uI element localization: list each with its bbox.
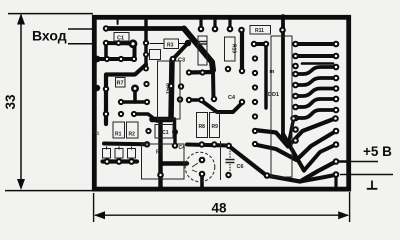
wire ground bus arm: [161, 161, 188, 165]
wire vertical stub x106: [104, 43, 108, 59]
transistor VT1 outline: [185, 152, 215, 182]
pad input 2: [103, 40, 109, 46]
pad left edge 2: [94, 85, 100, 91]
pad MC1: [172, 129, 178, 135]
wire vertical trace x242: [240, 30, 244, 71]
wire connector row 2: [296, 54, 337, 58]
svg-text:C4: C4: [179, 145, 186, 151]
pad row3 b: [118, 56, 124, 62]
pad connector R3: [333, 64, 340, 71]
pad column x255 pin3: [252, 84, 258, 90]
pad chevron left end: [252, 141, 258, 147]
pad left of center pair: [177, 96, 183, 102]
dimension 33 extension line top: [8, 13, 93, 15]
dimension 33 arrow up: [17, 13, 25, 24]
wire chevron trace 3b: [304, 145, 336, 171]
pad connector R2: [333, 53, 340, 60]
pad pair b: [263, 41, 269, 47]
svg-text:C1: C1: [117, 36, 124, 42]
wire bar at node: [189, 70, 213, 75]
dimension 33 arrow down: [17, 179, 25, 190]
pad bottom row 2: [172, 142, 178, 148]
pad three row b: [116, 158, 123, 165]
wire trace bottom row center: [187, 145, 228, 146]
wire vertical trace x146: [144, 18, 147, 69]
capacitor C5 outline: [198, 36, 207, 65]
pad C6 bottom: [225, 172, 231, 178]
diode MC1 outline: [155, 125, 173, 139]
pad connector R10: [333, 141, 340, 148]
input wire 1: [68, 28, 95, 30]
pad connector L10: [292, 137, 299, 144]
pad three row a: [104, 158, 111, 165]
board outline: [94, 17, 348, 189]
wire ground pad stem: [334, 176, 337, 189]
pad DA1 on trace: [168, 83, 175, 90]
svg-text:DA1: DA1: [165, 83, 171, 94]
pad connector L7: [292, 104, 299, 111]
pad stem x230: [227, 26, 234, 33]
svg-text:C3: C3: [178, 58, 185, 64]
wire trace pads pair: [254, 42, 266, 46]
pad +5V: [333, 158, 340, 165]
pad row3 a: [104, 56, 110, 62]
svg-text:R1: R1: [94, 131, 100, 136]
pad connector R4: [333, 75, 340, 82]
capacitor C1 outline: [114, 33, 129, 42]
pad column x255 pin1: [252, 55, 258, 61]
wire thin trace between rows: [302, 62, 333, 65]
IC DD1 outline: [271, 36, 292, 177]
wire connector S trace 4: [296, 99, 337, 107]
capacitor C5 plates: [198, 42, 208, 45]
pad column x255 pin4: [252, 99, 258, 105]
wire chevron trace 5 to ground: [300, 175, 335, 182]
wire R3 lead left: [150, 43, 164, 45]
pad R8 top: [198, 97, 204, 103]
ground wire: [340, 174, 393, 176]
pad bottom row 5: [226, 143, 232, 149]
dimension 48 extension line right: [349, 192, 351, 222]
svg-text:+5 В: +5 В: [363, 144, 392, 159]
wire C1 pad stub down: [133, 44, 137, 59]
capacitor C6 plates: [226, 160, 235, 163]
ground symbol: [367, 181, 378, 189]
svg-text:R4: R4: [156, 150, 163, 156]
pad R7 top: [131, 85, 139, 93]
pad R10 bottom: [225, 66, 231, 72]
svg-text:33: 33: [3, 94, 18, 110]
wire vertical trace x283: [281, 16, 285, 136]
resistor R9 outline: [210, 113, 220, 138]
wire connector S trace 1: [296, 67, 337, 74]
wire vertical to R9 pad: [211, 71, 216, 98]
wire trace row114: [134, 114, 157, 121]
pad bottom row 4: [211, 141, 217, 147]
pad right of DA1: [178, 83, 184, 89]
pad R7 right: [144, 99, 150, 105]
pad MC1 left: [145, 128, 151, 134]
pad pair a: [251, 41, 257, 47]
resistor R3 outline: [164, 39, 179, 49]
dimension 48 arrow left: [94, 211, 105, 219]
pad x242 bottom: [239, 68, 245, 74]
wire trace R7 horizontal: [121, 100, 147, 104]
dimension 48 extension line left: [93, 193, 95, 222]
wire L trace left: [106, 65, 146, 125]
pad bar b: [199, 69, 205, 75]
pad connector L5: [292, 82, 299, 89]
wire DA1 thick vertical trace: [152, 60, 172, 120]
wire chevron trace 3: [283, 134, 304, 171]
capacitor C6 leads: [229, 148, 231, 171]
pad connector L8: [292, 115, 299, 122]
wire trace three pad row: [103, 159, 138, 163]
pad row2 mid: [116, 40, 122, 46]
pad connector L1: [292, 41, 299, 48]
pad C4: [239, 99, 245, 105]
wire trace bottom row left: [104, 142, 147, 147]
pad x106 lower: [103, 111, 109, 117]
wire transistor emitter stem: [200, 174, 204, 189]
pad x145 top: [143, 40, 149, 46]
wire diagonal trace to center: [184, 29, 213, 71]
dimension 48 line: [95, 214, 348, 216]
svg-text:R7: R7: [117, 81, 124, 87]
pad column x255 pin6: [252, 128, 258, 134]
svg-text:m: m: [270, 69, 275, 75]
wire connector row 1: [296, 42, 337, 46]
svg-text:Вход: Вход: [32, 28, 67, 44]
pad connector R8: [332, 115, 339, 122]
pad connector R6: [333, 96, 340, 103]
wire +5V exit trace: [336, 160, 350, 162]
pad connector L3: [292, 63, 299, 70]
wire vertical trace x266: [264, 44, 267, 108]
svg-text:DD1: DD1: [268, 92, 279, 98]
resistor R4 outline: [103, 149, 111, 159]
wire chevron trace 2: [255, 131, 337, 160]
wire diagonal trace center: [202, 101, 242, 112]
capacitor C7 outline: [142, 144, 185, 179]
pad three row c: [128, 158, 135, 165]
wire stem pad to top edge x230: [228, 17, 231, 30]
wire chevron inner leg: [288, 119, 294, 146]
pad x145 bottom: [143, 66, 149, 72]
wire trace input top: [106, 26, 184, 31]
pad C3 bottom: [170, 56, 177, 63]
pad input 1: [103, 25, 109, 31]
wire stub C1: [117, 17, 119, 25]
pad transistor base: [199, 157, 206, 164]
resistor R11 outline: [250, 26, 271, 35]
dimension 33 extension line bottom: [5, 190, 92, 192]
pad chevron inner top: [290, 115, 296, 121]
wire MC1 pad stem: [173, 132, 176, 146]
wire DA1 lower trace: [173, 119, 177, 132]
pad center a: [186, 97, 192, 103]
svg-text:R9: R9: [212, 124, 219, 130]
pad bottom row 1: [144, 141, 150, 147]
pad connector L4: [292, 71, 299, 78]
wire ground bus vertical: [158, 121, 162, 188]
pad stem x201: [198, 26, 205, 33]
resistor R6 outline: [128, 149, 136, 159]
wire trace C3 diagonal: [173, 43, 188, 59]
wire trace center pair: [189, 98, 201, 102]
wire trace R7 vertical: [133, 89, 137, 102]
dimension 33 line: [20, 15, 22, 186]
pad row114 b: [131, 111, 137, 117]
svg-text:R2: R2: [129, 132, 136, 138]
wire chevron trace 4 to +5V: [229, 146, 336, 182]
pad connector L2: [292, 53, 299, 60]
pad R11 left: [238, 27, 245, 34]
pad R7 left: [118, 99, 124, 105]
pad connector L9: [292, 126, 299, 133]
op-amp DA1 outline: [158, 61, 181, 119]
svg-text:R1: R1: [115, 132, 122, 138]
pad row3 c: [131, 56, 137, 62]
dimension 48 arrow right: [338, 211, 349, 219]
pad on left edge: [94, 56, 101, 63]
pad connector R7: [333, 107, 340, 114]
pad bar a: [186, 69, 192, 75]
pad bottom row 3: [199, 141, 205, 147]
wire stem pad to top edge x201: [199, 17, 202, 30]
pad R11 right: [279, 27, 286, 34]
pad connector R5: [333, 85, 340, 92]
pad transistor emitter: [199, 171, 206, 178]
resistor R2 outline: [127, 122, 139, 138]
svg-text:R10: R10: [231, 44, 237, 53]
wire connector S trace 2: [296, 78, 337, 85]
wire connector S trace 3: [296, 89, 337, 97]
resistor R8 outline: [197, 113, 208, 138]
pad chevron vertex: [264, 172, 271, 179]
svg-text:C4: C4: [228, 95, 236, 101]
pad R9 top: [211, 96, 217, 102]
wire stem pad to top edge x215: [213, 17, 216, 30]
resistor R1 outline: [113, 122, 125, 138]
wire connector S trace 5: [296, 110, 337, 118]
pad ground bus: [157, 172, 164, 179]
svg-text:C6: C6: [237, 164, 244, 170]
svg-text:48: 48: [211, 201, 227, 216]
svg-text:R8: R8: [199, 124, 206, 130]
pad column x255 pin2: [252, 70, 258, 76]
pad connector L6: [292, 93, 299, 100]
pad connector R9: [333, 128, 340, 135]
svg-text:R3: R3: [167, 43, 174, 49]
pad stem x215: [212, 26, 219, 33]
resistor R5 outline: [115, 149, 123, 159]
component outline line right of VT1: [220, 141, 222, 180]
pad x106 upper: [103, 86, 109, 92]
pad ground: [333, 171, 340, 178]
+5V wire: [340, 161, 378, 163]
wire trace row3: [96, 57, 134, 61]
wire R3 lead right: [179, 43, 187, 45]
pad C1 large: [129, 39, 138, 48]
input wire 2: [68, 43, 95, 45]
capacitor C2 outline: [150, 50, 161, 60]
svg-text:R11: R11: [255, 28, 264, 34]
wire chevron trace 1: [255, 119, 336, 147]
pad row114 a: [118, 111, 124, 117]
resistor tick marks: [107, 147, 132, 150]
transistor VT1 inner marks: [192, 163, 198, 172]
pad near R7 right: [143, 81, 149, 87]
svg-text:MC1: MC1: [158, 130, 169, 136]
wire trace input row2: [106, 41, 133, 46]
pad x145 mid: [143, 52, 149, 58]
pad column x255 pin5: [252, 113, 258, 119]
resistor R10 outline: [225, 37, 236, 61]
pad connector R1: [333, 41, 340, 48]
pad C3 top: [185, 40, 192, 47]
resistor R7 outline: [116, 78, 126, 88]
